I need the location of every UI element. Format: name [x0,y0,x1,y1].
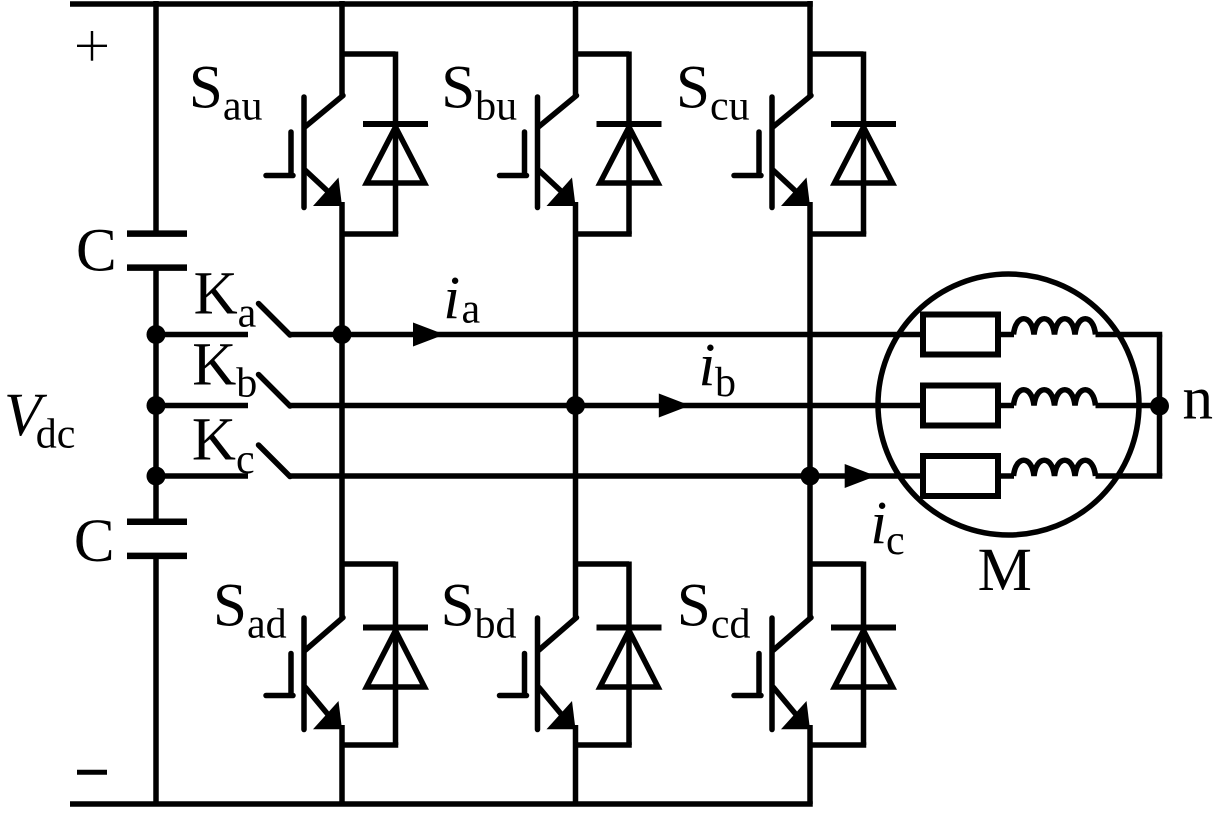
wire: phase c line from switch to motor [289,473,924,479]
svg-text:Scd: Scd [677,573,751,648]
wire: leg c upper collector from +rail [807,1,813,97]
current arrow ib [659,394,690,418]
inductor: phase a winding [1014,319,1096,335]
wire: leg c upper emitter down to phase node [807,202,813,476]
wire: neutral bus (right side) [1157,335,1163,477]
node: phase b leg junction [566,396,585,415]
node n (motor neutral) [1150,397,1169,416]
diode Dau (anti-parallel, upper) [342,52,428,235]
wire: leg a lower emitter to -rail [339,725,345,804]
svg-text:i: i [870,490,887,557]
svg-text:M: M [978,537,1032,604]
label ic [870,490,904,564]
label Vdc [4,382,75,458]
wire: phase c resistor to inductor [998,473,1014,479]
current arrow ia [413,323,445,347]
resistor: phase a winding resistance [923,315,998,355]
wire: leg c lower collector from phase node [807,476,813,619]
diode Dcu (anti-parallel, upper) [810,52,896,235]
svg-text:C: C [76,217,117,284]
resistor: phase b winding resistance [923,386,998,426]
wire: leg a lower collector from phase node [339,335,345,620]
wire: leg a upper emitter down to phase node [339,202,345,335]
diode Dcd (anti-parallel, lower) [810,562,896,746]
diode Dad (anti-parallel, lower) [342,562,428,746]
wire: top DC rail (+) [70,1,813,7]
wire: leg b upper collector from +rail [573,1,579,97]
diode Dbd (anti-parallel, lower) [576,562,662,746]
switch Ka: blade [259,304,291,336]
current arrow ic [845,464,876,488]
switch Kc: blade [259,445,291,477]
transistor Sbd (IGBT) [500,618,577,730]
wire: phase c inductor to neutral bus [1096,473,1163,479]
node: DC midpoint / Ka junction [147,325,166,344]
transistor Scu (IGBT) [734,96,811,208]
svg-text:Kb: Kb [192,332,257,407]
diode Dbu (anti-parallel, upper) [576,52,662,235]
label - (negative terminal) [77,770,107,775]
wire: phase b line from switch to motor [289,403,924,409]
svg-text:Ka: Ka [194,261,257,337]
wire: leg b lower collector from phase node [573,406,579,620]
svg-text:i: i [699,332,716,399]
svg-text:c: c [886,518,905,564]
wire: phase b resistor to inductor [998,403,1014,409]
wire: leg a upper collector from +rail [339,1,345,97]
switch Kc: fixed lead from DC midpoint [156,473,248,479]
wire: leg c lower emitter to -rail [807,725,813,804]
svg-text:b: b [715,360,736,406]
svg-text:a: a [462,287,481,333]
label ia [443,265,480,333]
node: phase a leg junction [333,325,352,344]
transistor Sbu (IGBT) [500,96,577,208]
svg-text:Sbd: Sbd [441,573,517,648]
svg-text:dc: dc [36,411,76,457]
wire: phase b inductor to neutral bus [1096,403,1163,409]
capacitor C (lower) [127,522,187,556]
wire: left DC rail, bottom section [153,556,159,804]
svg-text:Sau: Sau [189,55,263,130]
switch Kb: fixed lead from DC midpoint [156,403,248,409]
transistor Sad (IGBT) [266,618,343,730]
switch Ka: fixed lead from DC midpoint [156,332,248,338]
wire: phase a resistor to inductor [998,332,1014,338]
wire: phase a line from switch to motor [289,332,924,338]
node: DC midpoint / Kb junction [147,396,166,415]
node: phase c leg junction [801,467,820,486]
svg-text:Sad: Sad [213,573,287,648]
motor M stator circle [878,274,1139,535]
inductor: phase c winding [1014,460,1096,476]
svg-text:n: n [1183,366,1214,433]
wire: left DC rail, middle section [153,268,159,522]
switch Kb: blade [259,375,291,407]
svg-text:Kc: Kc [192,407,255,484]
svg-text:i: i [443,265,460,332]
wire: leg b lower emitter to -rail [573,725,579,804]
wire: leg b upper emitter down to phase node [573,202,579,406]
wire: phase a inductor to neutral bus [1096,332,1163,338]
wire: left DC rail, top section [153,1,159,231]
resistor: phase c winding resistance [923,456,998,496]
svg-text:Sbu: Sbu [441,55,517,130]
node: DC midpoint / Kc junction [147,467,166,486]
label + (positive terminal) [77,31,107,61]
svg-text:Scu: Scu [676,55,750,130]
label ib [699,332,737,406]
transistor Scd (IGBT) [734,618,811,730]
capacitor C (upper) [127,234,187,268]
svg-text:C: C [74,508,115,575]
wire: bottom DC rail (-) [70,801,813,807]
inductor: phase b winding [1014,390,1096,406]
transistor Sau (IGBT) [266,96,343,208]
